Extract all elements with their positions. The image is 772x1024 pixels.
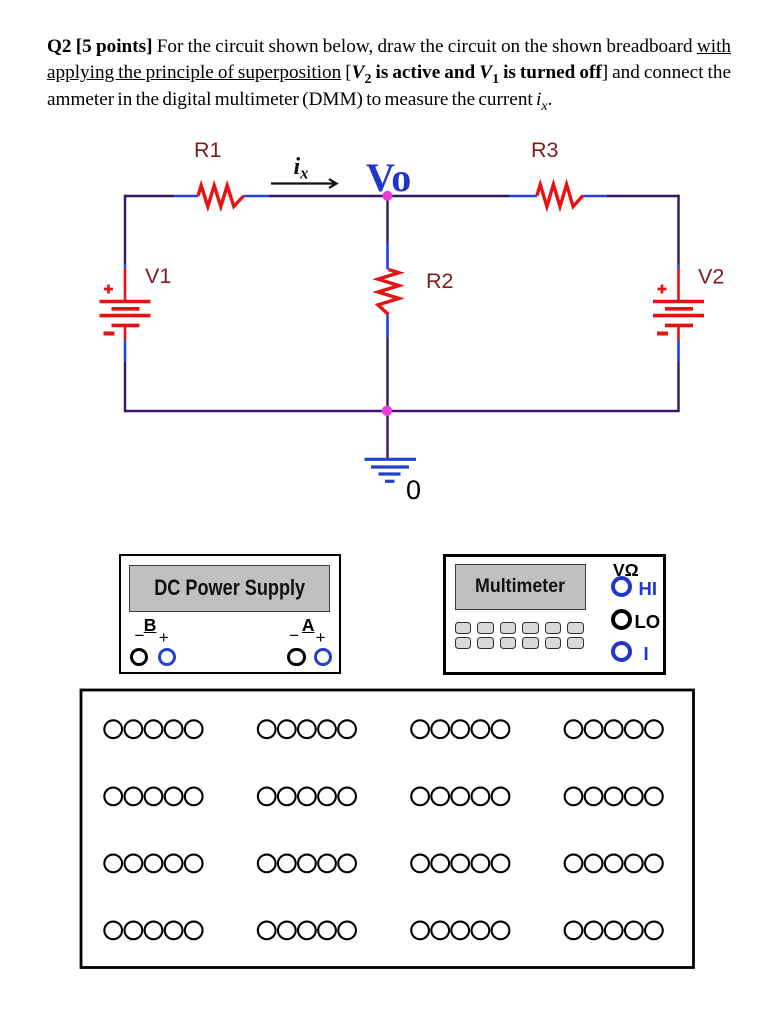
svg-text:Vo: Vo — [366, 155, 411, 200]
svg-text:0: 0 — [406, 475, 421, 505]
svg-text:R1: R1 — [194, 138, 221, 162]
svg-text:V2: V2 — [698, 265, 724, 289]
svg-text:R2: R2 — [426, 269, 453, 293]
svg-text:ix: ix — [294, 154, 309, 183]
svg-text:V1: V1 — [145, 264, 171, 288]
svg-text:R3: R3 — [531, 138, 559, 162]
